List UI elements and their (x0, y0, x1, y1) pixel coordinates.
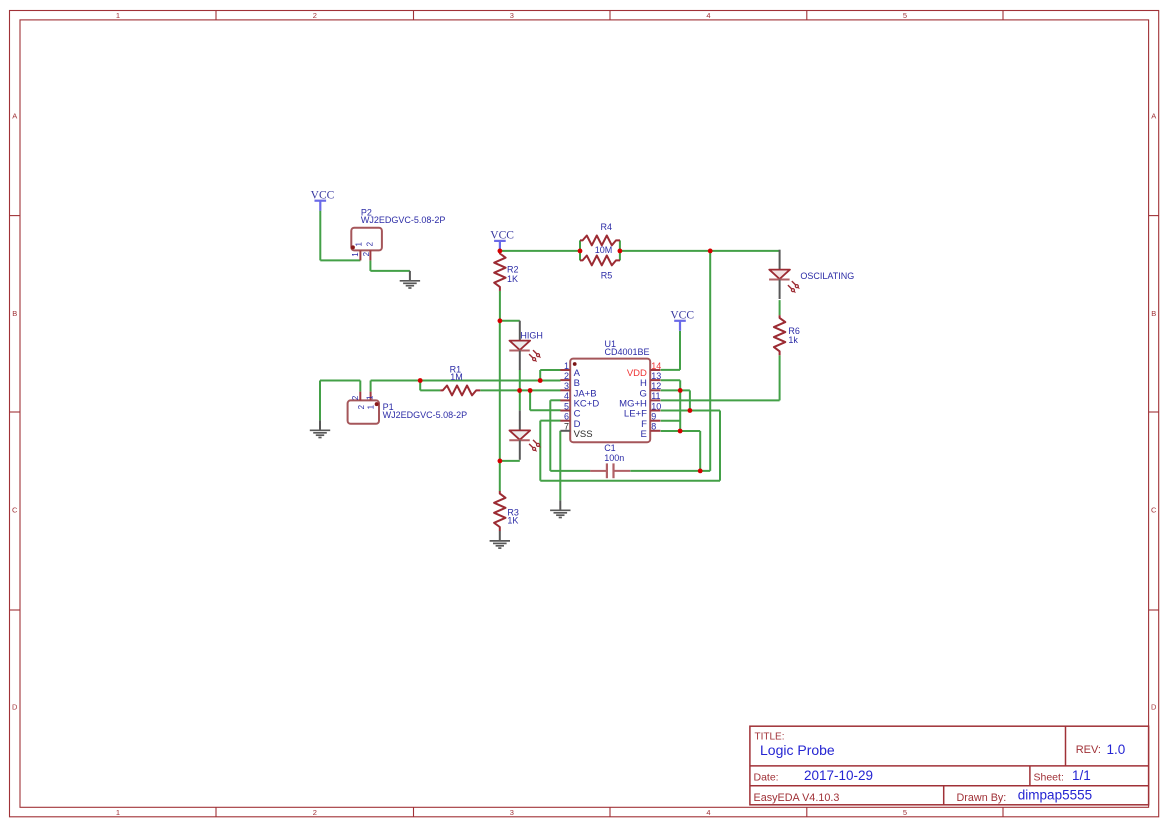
svg-text:C: C (1151, 506, 1157, 515)
svg-text:A: A (1151, 111, 1156, 120)
svg-text:4: 4 (706, 808, 710, 817)
svg-text:7: 7 (564, 422, 569, 432)
svg-text:WJ2EDGVC-5.08-2P: WJ2EDGVC-5.08-2P (383, 410, 468, 420)
svg-text:3: 3 (510, 11, 514, 20)
svg-text:12: 12 (651, 381, 661, 391)
svg-text:1: 1 (116, 11, 120, 20)
svg-text:TITLE:: TITLE: (755, 731, 785, 742)
svg-text:8: 8 (651, 422, 656, 432)
svg-text:CD4001BE: CD4001BE (605, 347, 650, 357)
svg-text:5: 5 (903, 808, 907, 817)
svg-text:VCC: VCC (311, 189, 335, 201)
svg-text:1k: 1k (788, 335, 798, 345)
svg-text:2: 2 (564, 371, 569, 381)
svg-text:A: A (12, 111, 17, 120)
svg-text:C1: C1 (604, 443, 616, 453)
svg-text:2: 2 (365, 241, 374, 246)
svg-text:4: 4 (706, 11, 710, 20)
svg-text:HIGH: HIGH (520, 331, 543, 341)
svg-text:R5: R5 (601, 270, 613, 280)
svg-text:1: 1 (365, 395, 374, 400)
svg-text:C: C (12, 506, 18, 515)
svg-text:100n: 100n (604, 453, 624, 463)
svg-text:VCC: VCC (670, 309, 694, 321)
svg-text:Logic Probe: Logic Probe (760, 742, 835, 758)
svg-text:11: 11 (651, 391, 660, 401)
svg-text:1: 1 (564, 361, 569, 371)
svg-text:1/1: 1/1 (1072, 768, 1091, 783)
svg-text:WJ2EDGVC-5.08-2P: WJ2EDGVC-5.08-2P (361, 215, 446, 225)
svg-text:6: 6 (564, 412, 569, 422)
svg-text:dimpap5555: dimpap5555 (1018, 788, 1092, 803)
svg-text:3: 3 (564, 381, 569, 391)
svg-text:1: 1 (355, 242, 364, 247)
svg-text:10: 10 (651, 401, 661, 411)
svg-text:3: 3 (510, 808, 514, 817)
svg-text:B: B (1151, 309, 1156, 318)
svg-text:1: 1 (351, 252, 360, 257)
svg-text:E: E (641, 429, 647, 440)
svg-text:VCC: VCC (490, 230, 514, 242)
svg-text:2: 2 (351, 395, 360, 400)
svg-text:1M: 1M (450, 372, 463, 382)
svg-text:1.0: 1.0 (1107, 742, 1126, 757)
svg-text:VSS: VSS (574, 429, 593, 440)
svg-text:Date:: Date: (754, 772, 779, 784)
svg-text:4: 4 (564, 391, 569, 401)
svg-text:EasyEDA V4.10.3: EasyEDA V4.10.3 (754, 792, 840, 804)
svg-text:2: 2 (313, 808, 317, 817)
svg-text:1: 1 (116, 808, 120, 817)
svg-text:D: D (1151, 703, 1157, 712)
svg-text:10M: 10M (595, 245, 613, 255)
svg-text:1K: 1K (507, 274, 518, 284)
svg-text:5: 5 (564, 401, 569, 411)
svg-text:2: 2 (362, 251, 371, 256)
svg-text:14: 14 (651, 361, 661, 371)
svg-text:13: 13 (651, 371, 661, 381)
svg-text:B: B (12, 309, 17, 318)
svg-text:9: 9 (651, 412, 656, 422)
svg-text:2: 2 (357, 404, 366, 409)
svg-text:2017-10-29: 2017-10-29 (804, 768, 873, 783)
svg-text:Sheet:: Sheet: (1034, 772, 1064, 784)
svg-text:OSCILATING: OSCILATING (800, 271, 854, 281)
svg-text:2: 2 (313, 11, 317, 20)
svg-text:1: 1 (367, 404, 376, 409)
svg-text:Drawn By:: Drawn By: (957, 792, 1007, 804)
svg-text:R4: R4 (601, 222, 613, 232)
svg-text:REV:: REV: (1076, 744, 1101, 756)
svg-text:5: 5 (903, 11, 907, 20)
svg-text:1K: 1K (507, 516, 518, 526)
svg-text:D: D (12, 703, 18, 712)
